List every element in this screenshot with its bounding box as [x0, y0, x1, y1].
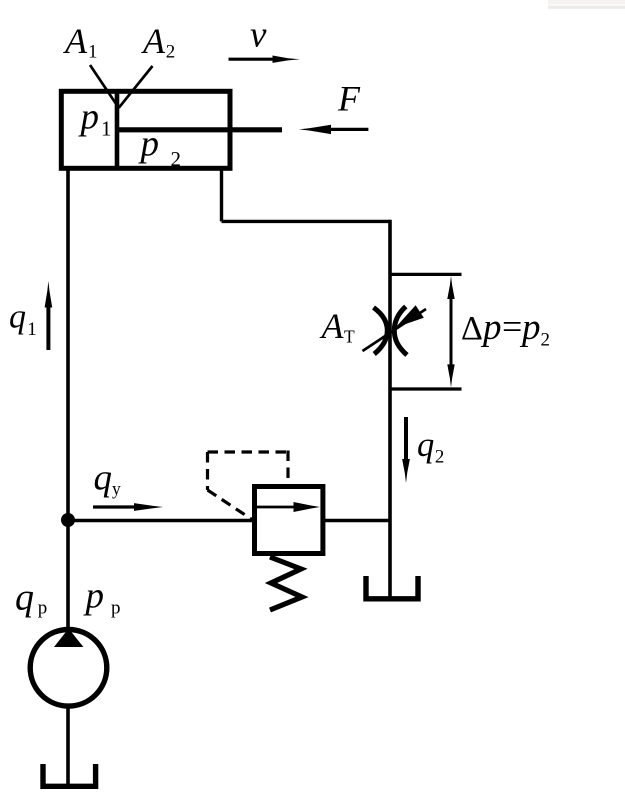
force arrow F	[299, 125, 368, 134]
leader line A2	[119, 66, 153, 108]
svg-text:A: A	[63, 21, 88, 61]
svg-text:Δ: Δ	[461, 310, 483, 347]
svg-text:2: 2	[541, 329, 551, 350]
svg-text:1: 1	[88, 42, 98, 63]
label q1	[9, 299, 37, 340]
svg-text:p: p	[480, 307, 502, 348]
svg-text:p: p	[78, 97, 100, 138]
tank bottom	[43, 764, 96, 786]
wire pump to tank	[66, 705, 70, 786]
svg-text:T: T	[344, 327, 355, 347]
relief valve spring	[270, 557, 302, 610]
svg-text:p: p	[138, 123, 160, 164]
dp measurement top line	[392, 273, 462, 276]
svg-text:p: p	[111, 598, 121, 619]
cylinder body	[61, 91, 230, 168]
wire node to relief valve	[68, 519, 254, 522]
svg-text:q: q	[9, 299, 26, 336]
label p2	[138, 123, 182, 171]
svg-text:A: A	[141, 21, 166, 61]
label A2	[141, 21, 175, 63]
flow arrow q2	[402, 417, 410, 483]
svg-text:A: A	[320, 306, 345, 346]
piston	[115, 91, 120, 168]
label dp=p2	[461, 307, 550, 351]
flow arrow q1	[45, 281, 53, 350]
svg-text:2: 2	[166, 42, 176, 63]
scan artifact bars top right	[548, 0, 625, 9]
wire relief valve to right line	[324, 519, 390, 522]
label pp	[83, 576, 121, 619]
svg-text:q: q	[15, 577, 34, 619]
label p1	[78, 97, 112, 141]
tank right	[366, 576, 418, 599]
svg-text:=: =	[502, 307, 522, 347]
relief valve box	[255, 487, 323, 554]
svg-text:y: y	[112, 479, 121, 499]
pilot dashed line	[208, 451, 289, 520]
wire right port down	[220, 168, 223, 221]
label qp	[15, 577, 47, 619]
relief valve internal arrow	[257, 502, 320, 512]
label qy	[94, 457, 122, 498]
label q2	[417, 426, 444, 468]
svg-text:1: 1	[101, 117, 112, 141]
throttle valve AT arcs	[374, 307, 408, 356]
svg-text:p: p	[83, 576, 105, 617]
svg-text:q: q	[417, 426, 434, 464]
flow arrow qy	[93, 503, 163, 511]
svg-text:2: 2	[171, 147, 182, 171]
dp measurement bottom line	[392, 387, 462, 390]
wire horizontal to right line	[222, 220, 391, 223]
svg-text:1: 1	[27, 319, 37, 340]
label A1	[63, 21, 98, 63]
leader line A1	[90, 65, 119, 108]
svg-text:v: v	[250, 15, 267, 56]
label AT	[320, 306, 356, 347]
svg-text:p: p	[38, 598, 48, 619]
velocity arrow v	[229, 56, 301, 63]
wire left port down to node	[66, 168, 70, 521]
wire right vertical line	[388, 220, 392, 599]
piston rod	[117, 127, 282, 132]
pump	[30, 630, 107, 707]
wire node to pump	[66, 520, 70, 630]
svg-text:F: F	[337, 79, 361, 119]
svg-text:p: p	[519, 307, 541, 348]
dp double arrow	[447, 276, 454, 388]
pump triangle	[54, 629, 83, 648]
svg-text:q: q	[94, 457, 113, 498]
throttle adjust arrow	[363, 305, 427, 351]
node junction dot	[61, 513, 75, 527]
svg-text:2: 2	[435, 447, 445, 468]
